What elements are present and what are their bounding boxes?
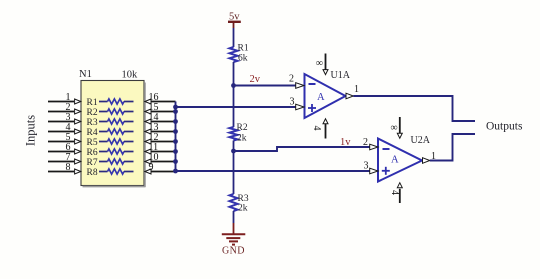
svg-text:U1A: U1A: [331, 70, 351, 81]
svg-text:R8: R8: [87, 168, 98, 178]
svg-text:R6: R6: [87, 148, 98, 158]
svg-text:Inputs: Inputs: [23, 115, 37, 146]
svg-text:R2: R2: [237, 123, 248, 133]
U2A bottom power pin 4: [397, 183, 402, 203]
svg-text:N1: N1: [79, 69, 92, 80]
U2A pin3 arrow: [370, 168, 378, 174]
junction dots on bus: [173, 105, 178, 174]
resistor network N1 body: [81, 81, 146, 188]
resistor R8 symbol (in network): [99, 169, 134, 174]
resistor R4 symbol (in network): [99, 129, 134, 134]
U2A output arrow pin1: [423, 158, 430, 164]
power port 5v: [228, 12, 241, 23]
resistor R1 symbol (in network): [99, 99, 134, 104]
svg-text:4: 4: [311, 126, 322, 131]
input wire pin 4: [48, 131, 74, 133]
svg-text:∞: ∞: [316, 58, 323, 69]
svg-text:3: 3: [364, 161, 369, 172]
svg-text:R1: R1: [87, 98, 98, 108]
U1A minus input marker: [309, 83, 316, 85]
wire R1 to node 2v: [233, 62, 235, 86]
pin 5 arrow: [75, 139, 81, 144]
pin 13 wire: [151, 131, 176, 133]
wire U2A output: [430, 134, 475, 161]
pin 12 arrow: [145, 139, 151, 144]
ground symbol: [222, 234, 246, 244]
pin 4 arrow: [75, 129, 81, 134]
svg-text:∞: ∞: [390, 123, 397, 134]
svg-text:R4: R4: [87, 128, 98, 138]
resistor R5 symbol (in network): [99, 139, 134, 144]
svg-text:2: 2: [289, 74, 294, 85]
wire 5v to R1: [233, 22, 235, 47]
node 1v junction: [231, 149, 236, 154]
svg-text:A: A: [317, 92, 325, 103]
U2A pin2 arrow: [370, 144, 378, 150]
pin 15 arrow: [145, 109, 151, 114]
svg-text:2: 2: [363, 137, 368, 148]
op-amp U1A body: [305, 74, 346, 118]
pin 8 arrow: [75, 169, 81, 174]
pin 16 wire: [151, 101, 176, 103]
wire U1A output: [353, 96, 475, 121]
wire node 2v to U1A pin2: [234, 85, 296, 87]
svg-text:2v: 2v: [250, 74, 261, 85]
resistor R3 symbol: [230, 194, 238, 211]
resistor R2 symbol: [230, 127, 238, 141]
U2A plus input marker: [382, 167, 390, 175]
wire R3 to ground: [233, 211, 235, 234]
wire R2 to node 1v: [233, 141, 235, 152]
wire bus to U2A pin3: [176, 170, 370, 172]
svg-text:2k: 2k: [237, 134, 247, 144]
U1A pin2 arrow: [296, 83, 304, 89]
input wire pin 1: [48, 101, 74, 103]
resistor R7 symbol (in network): [99, 159, 134, 164]
U1A pin3 arrow: [296, 104, 304, 110]
pin 6 arrow: [75, 149, 81, 154]
svg-text:R3: R3: [87, 118, 98, 128]
U1A bottom power pin 4: [323, 119, 328, 139]
pin 9 arrow: [145, 169, 151, 174]
svg-text:R7: R7: [87, 158, 98, 168]
pin 1 arrow: [75, 99, 81, 104]
input wire pin 3: [48, 121, 74, 123]
pin 10 arrow: [145, 159, 151, 164]
input wire pin 7: [48, 161, 74, 163]
U1A output arrow pin1: [346, 93, 353, 99]
wire bus to U1A pin3: [176, 106, 296, 108]
input wire pin 5: [48, 141, 74, 143]
U1A top power pin 8: [323, 54, 328, 75]
svg-text:9: 9: [149, 162, 154, 173]
bus wire (network outputs tied): [175, 102, 177, 172]
svg-text:3: 3: [290, 97, 295, 108]
svg-text:U2A: U2A: [411, 135, 431, 146]
pin 3 arrow: [75, 119, 81, 124]
pin 15 wire: [151, 111, 176, 113]
pin 10 wire: [151, 161, 176, 163]
wire node 1v to U2A pin2: [234, 147, 370, 151]
pin 12 wire: [151, 141, 176, 143]
U2A minus input marker: [383, 148, 390, 150]
input wire pin 6: [48, 151, 74, 153]
pin 7 arrow: [75, 159, 81, 164]
pin 11 arrow: [145, 149, 151, 154]
wire node 2v down to R2: [233, 86, 235, 128]
node 2v junction: [231, 83, 236, 88]
op-amp U2A body: [378, 139, 422, 182]
svg-text:1v: 1v: [340, 137, 351, 148]
svg-text:R3: R3: [238, 194, 249, 204]
svg-text:2k: 2k: [238, 204, 248, 214]
pin 14 wire: [151, 121, 176, 123]
U1A plus input marker: [308, 104, 316, 112]
svg-text:10k: 10k: [122, 70, 139, 81]
svg-text:A: A: [391, 155, 399, 166]
pin 14 arrow: [145, 119, 151, 124]
resistor R1 symbol: [230, 47, 238, 62]
pin 16 arrow: [145, 99, 151, 104]
pin 9 wire: [151, 171, 176, 173]
svg-text:R2: R2: [87, 108, 98, 118]
svg-text:Outputs: Outputs: [486, 121, 523, 133]
svg-text:6k: 6k: [238, 54, 248, 64]
svg-text:R5: R5: [87, 138, 98, 148]
resistor R6 symbol (in network): [99, 149, 134, 154]
wire node 1v down to R3: [233, 151, 235, 194]
svg-text:R1: R1: [238, 44, 249, 54]
pin 13 arrow: [145, 129, 151, 134]
resistor R3 symbol (in network): [99, 119, 134, 124]
pin 2 arrow: [75, 109, 81, 114]
pin 11 wire: [151, 151, 176, 153]
input wire pin 2: [48, 111, 74, 113]
svg-text:GND: GND: [222, 246, 245, 257]
svg-text:4: 4: [389, 190, 400, 195]
input wire pin 8: [48, 171, 74, 173]
U2A top power pin 8: [397, 117, 402, 138]
svg-text:1: 1: [354, 84, 359, 95]
svg-text:8: 8: [66, 162, 71, 173]
resistor R2 symbol (in network): [99, 109, 134, 114]
